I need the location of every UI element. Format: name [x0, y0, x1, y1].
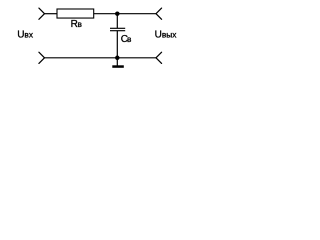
resistor RB: [57, 9, 94, 18]
node: bottom junction dot: [115, 56, 120, 61]
svg-text:Uвых: Uвых: [155, 29, 178, 40]
input terminal (bottom left chevron): [39, 52, 45, 63]
wire: input terminal to resistor: [45, 13, 58, 15]
ground: [112, 65, 124, 68]
output terminal (bottom right chevron): [156, 52, 162, 63]
wire: junction down to capacitor: [116, 14, 118, 29]
svg-text:Cв: Cв: [121, 34, 132, 45]
background: [0, 0, 193, 72]
svg-text:Rв: Rв: [71, 19, 83, 30]
wire: capacitor down to bottom rail: [116, 31, 118, 58]
svg-text:Uвх: Uвх: [17, 29, 34, 40]
capacitor CB: [110, 28, 125, 30]
node: top junction dot: [115, 11, 120, 16]
wire: resistor to output terminal: [94, 13, 156, 15]
ground stub wire: [116, 58, 118, 66]
output terminal (top right chevron): [156, 8, 162, 19]
bottom rail wire: [45, 57, 157, 59]
input terminal (top left chevron): [39, 8, 45, 19]
